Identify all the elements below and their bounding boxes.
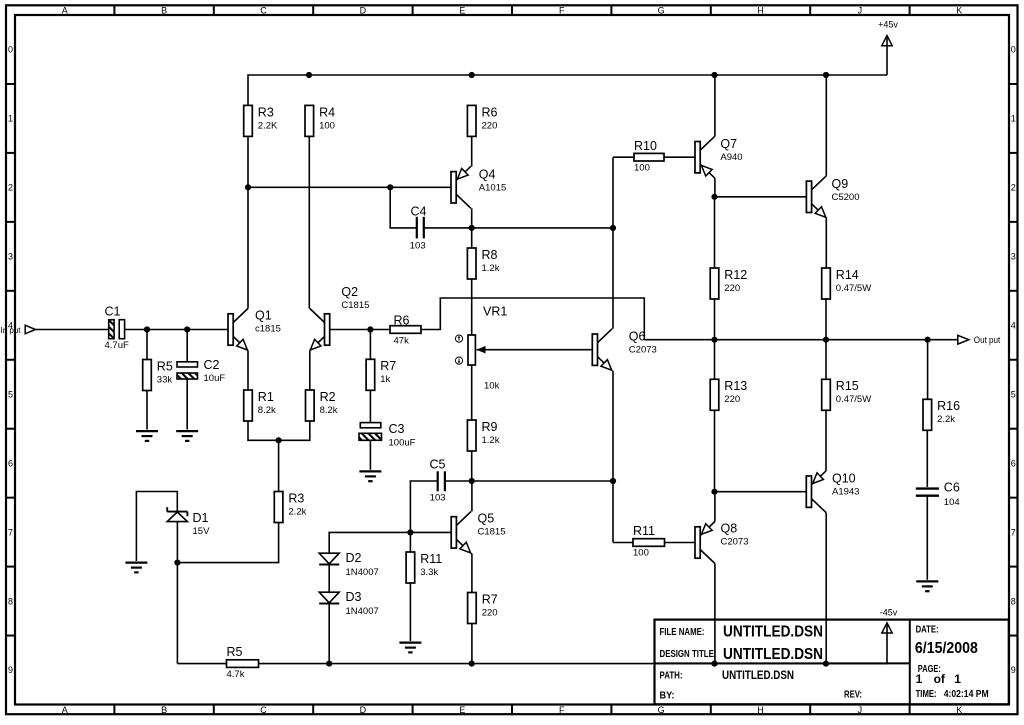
resistor R5b labels — [227, 645, 245, 680]
ground under C6 — [916, 581, 938, 591]
wire R1/R2 bottoms joined — [248, 421, 310, 440]
transistor Q1 labels — [255, 308, 281, 334]
svg-text:3: 3 — [8, 252, 13, 262]
svg-text:Out put: Out put — [974, 335, 1001, 345]
svg-text:D: D — [360, 705, 367, 715]
input port — [1, 325, 36, 335]
svg-text:C1815: C1815 — [341, 300, 369, 311]
svg-text:R11: R11 — [420, 552, 442, 566]
node dot Q7 emitter / Q9 base / R12 — [711, 194, 717, 200]
wire Q5 emitter to R7 — [471, 553, 473, 592]
resistor R8 body — [467, 248, 476, 279]
transistor Q7 — [695, 136, 715, 178]
resistor R9 body — [467, 420, 476, 451]
svg-text:B: B — [161, 705, 167, 715]
svg-text:8: 8 — [1011, 596, 1016, 606]
wire node to R8 — [471, 228, 473, 248]
svg-text:G: G — [658, 705, 665, 715]
transistor Q4 labels — [479, 167, 506, 193]
svg-text:0.47/5W: 0.47/5W — [836, 283, 871, 294]
svg-text:D3: D3 — [346, 590, 362, 604]
resistor R10 labels — [634, 139, 657, 174]
wire output rail to R16 — [927, 340, 929, 400]
svg-text:G: G — [658, 5, 665, 15]
svg-text:0: 0 — [8, 45, 13, 55]
svg-text:R14: R14 — [836, 268, 859, 282]
svg-text:1.2k: 1.2k — [482, 263, 500, 274]
capacitor C3 body — [359, 423, 382, 441]
resistor R4 body — [305, 105, 314, 136]
resistor R16 body — [923, 399, 932, 430]
svg-text:K: K — [956, 705, 962, 715]
wire R10 left to Q6 collector line — [613, 156, 634, 158]
svg-text:1N4007: 1N4007 — [346, 567, 379, 578]
svg-text:R2: R2 — [320, 390, 336, 404]
svg-text:A: A — [62, 5, 68, 15]
node dot Q8 top / Q10 base — [711, 489, 717, 495]
wire C5 left to Q5 base — [410, 481, 437, 532]
svg-text:R6: R6 — [482, 105, 498, 119]
node dot C4 branch — [387, 184, 393, 190]
svg-text:F: F — [559, 5, 565, 15]
resistor R5 labels — [157, 359, 173, 385]
junction dots on bottom rail — [326, 661, 829, 667]
wire Q2 base node to R6 — [370, 329, 390, 331]
wire Q5 base segment — [410, 531, 451, 533]
transistor Q6 — [592, 329, 612, 371]
svg-text:R7: R7 — [380, 359, 396, 373]
svg-text:BY:: BY: — [660, 691, 675, 702]
wire node to Q6 emitter — [472, 480, 613, 482]
resistor R3b body — [274, 492, 283, 523]
wire R3 to D1 node — [177, 523, 278, 563]
resistor R11b body — [633, 539, 665, 547]
svg-text:Q9: Q9 — [832, 177, 849, 191]
wire R10 to Q7 base — [664, 156, 695, 158]
svg-text:+45v: +45v — [878, 20, 898, 30]
capacitor C3 labels — [389, 422, 416, 449]
wire D1 node to bottom rail — [176, 563, 178, 664]
title block frame — [655, 620, 1009, 705]
resistor R12 labels — [724, 268, 747, 294]
svg-text:104: 104 — [944, 497, 960, 508]
diode D2 labels — [346, 551, 379, 578]
transistor Q4 — [451, 166, 471, 208]
svg-text:1: 1 — [916, 672, 923, 686]
resistor R3 labels — [258, 105, 278, 131]
wire C5 right to node — [446, 480, 472, 482]
svg-text:R16: R16 — [937, 399, 960, 413]
svg-text:R13: R13 — [724, 379, 747, 393]
transistor Q10 labels — [832, 471, 859, 497]
svg-text:8: 8 — [8, 596, 13, 606]
node dot Q4 collector / C4 / R8 — [469, 225, 475, 231]
svg-text:Q4: Q4 — [479, 167, 496, 181]
ground under C2 — [176, 431, 198, 441]
wire -45v bottom rail — [177, 663, 887, 665]
svg-text:8.2k: 8.2k — [320, 405, 338, 416]
+45v power symbol — [878, 20, 898, 75]
svg-text:220: 220 — [724, 394, 740, 405]
wire node to Q10 base — [715, 491, 807, 493]
resistor R14 labels — [836, 268, 871, 294]
capacitor C5 labels — [430, 457, 446, 503]
wire D1 cathode to ground — [136, 492, 177, 562]
wire Q2 emitter to R2 — [309, 351, 311, 391]
svg-text:8.2k: 8.2k — [258, 405, 276, 416]
svg-text:E: E — [459, 5, 465, 15]
title block by/rev row — [660, 690, 863, 702]
node dot R9/C5/Q5 collector — [469, 478, 475, 484]
svg-text:1: 1 — [8, 114, 13, 124]
svg-text:C1: C1 — [105, 304, 121, 318]
svg-text:REV:: REV: — [844, 690, 862, 701]
svg-text:1: 1 — [1011, 114, 1016, 124]
svg-text:9: 9 — [8, 665, 13, 675]
svg-text:4: 4 — [1011, 321, 1016, 331]
svg-text:R3: R3 — [258, 105, 274, 119]
svg-text:100: 100 — [634, 162, 650, 173]
wire D1 anode down — [176, 522, 178, 563]
wire D3 to bottom rail — [328, 603, 330, 663]
transistor Q9 — [806, 176, 826, 218]
wire D2 to D3 — [328, 564, 330, 592]
svg-text:5: 5 — [8, 389, 13, 399]
node dot R10 branch — [610, 225, 616, 231]
wire R11 to Q8 base — [665, 542, 696, 544]
svg-text:100uF: 100uF — [389, 438, 416, 449]
svg-text:220: 220 — [724, 283, 740, 294]
wire node to R5 — [146, 330, 148, 360]
resistor R5b body — [227, 660, 259, 668]
node dot tail junction — [276, 437, 282, 443]
svg-text:R3: R3 — [288, 491, 304, 505]
svg-text:2.2k: 2.2k — [288, 506, 306, 517]
svg-text:UNTITLED.DSN: UNTITLED.DSN — [723, 646, 823, 663]
svg-text:K: K — [956, 5, 962, 15]
title block page — [916, 664, 962, 686]
svg-text:R9: R9 — [482, 420, 498, 434]
wire node to R11 — [409, 532, 411, 552]
svg-text:Q10: Q10 — [832, 471, 856, 485]
wire R11 to ground — [409, 583, 411, 641]
wire output rail to R13 — [714, 340, 716, 380]
wire output rail — [644, 339, 958, 341]
wire Q1 collector up — [247, 187, 249, 308]
svg-text:103: 103 — [410, 241, 426, 252]
svg-text:C5: C5 — [430, 457, 446, 471]
diode D1 labels — [193, 511, 211, 537]
svg-text:9: 9 — [1011, 665, 1016, 675]
transistor Q5 labels — [478, 511, 506, 537]
wire Q4 collector down — [471, 208, 473, 228]
svg-text:2.2K: 2.2K — [258, 120, 278, 131]
svg-text:C2073: C2073 — [721, 536, 749, 547]
junction dots on top rail — [306, 72, 829, 78]
svg-text:J: J — [858, 705, 863, 715]
resistor R6b body — [467, 105, 476, 136]
wire Q8 top to node — [714, 492, 716, 522]
wire C3 to ground — [369, 440, 371, 470]
transistor Q6 labels — [629, 329, 657, 355]
svg-text:F: F — [559, 705, 565, 715]
wire R7 to C3 — [369, 390, 371, 422]
potentiometer VR1 labels — [483, 304, 507, 391]
svg-text:5: 5 — [1011, 389, 1016, 399]
wire Q1 emitter to R1 — [247, 351, 249, 391]
title block date — [915, 624, 978, 657]
wire R16 to C6 — [926, 430, 928, 487]
svg-text:47k: 47k — [394, 335, 410, 346]
svg-text:R5: R5 — [227, 645, 243, 659]
capacitor C6 body — [916, 489, 939, 496]
svg-text:15V: 15V — [193, 526, 211, 537]
svg-text:Q5: Q5 — [478, 511, 495, 525]
wire VR1 wiper to Q6 base — [477, 349, 593, 351]
svg-text:1: 1 — [954, 672, 961, 686]
svg-text:2.2k: 2.2k — [937, 414, 955, 425]
border column tick marks — [114, 5, 909, 714]
svg-text:R5: R5 — [157, 359, 173, 373]
svg-text:A1943: A1943 — [832, 486, 859, 497]
svg-text:Q2: Q2 — [341, 285, 358, 299]
svg-text:H: H — [757, 5, 764, 15]
node dot Q5 base / R11 / D2 — [407, 529, 413, 535]
svg-text:103: 103 — [430, 492, 446, 503]
svg-text:C4: C4 — [411, 204, 427, 218]
resistor R3b labels — [288, 491, 306, 517]
wire C6 to ground — [926, 496, 928, 580]
resistor R1 body — [244, 390, 253, 421]
wire Q7 collector to +45 rail — [714, 75, 716, 136]
svg-text:D: D — [360, 5, 367, 15]
resistor R13 labels — [724, 379, 747, 405]
svg-text:D2: D2 — [346, 551, 362, 565]
svg-text:6/15/2008: 6/15/2008 — [915, 640, 978, 657]
wire input to C1 — [35, 329, 108, 331]
svg-text:4.7k: 4.7k — [227, 669, 245, 680]
node dot Q6 emitter / C5 node — [610, 478, 616, 484]
node dot at C2 top — [184, 326, 190, 332]
svg-text:R4: R4 — [319, 105, 335, 119]
svg-text:Q1: Q1 — [255, 308, 272, 322]
svg-text:TIME:: TIME: — [916, 689, 937, 700]
svg-text:1N4007: 1N4007 — [346, 606, 379, 617]
capacitor C4 body — [417, 217, 424, 239]
transistor Q5 — [451, 511, 471, 553]
transistor Q7 labels — [720, 137, 742, 163]
resistor R6a body — [390, 326, 421, 334]
node dot R3/Q1/Q4 base — [245, 184, 251, 190]
svg-text:R7: R7 — [482, 592, 498, 606]
svg-text:4:02:14 PM: 4:02:14 PM — [944, 689, 989, 700]
svg-text:C: C — [260, 5, 267, 15]
resistor R9 labels — [482, 420, 500, 446]
svg-text:220: 220 — [482, 120, 498, 131]
svg-text:33k: 33k — [157, 374, 173, 385]
resistor R10 body — [634, 153, 664, 161]
svg-text:R15: R15 — [836, 379, 859, 393]
resistor R11a body — [406, 552, 415, 583]
svg-text:0: 0 — [1011, 45, 1016, 55]
svg-text:6: 6 — [8, 458, 13, 468]
capacitor C5 body — [438, 471, 445, 491]
diode D3 body — [319, 592, 339, 603]
resistor R7a labels — [380, 359, 396, 385]
svg-text:DATE:: DATE: — [916, 624, 939, 635]
wire Q9 emitter to R14 — [825, 218, 827, 268]
svg-text:Q6: Q6 — [629, 329, 646, 343]
transistor Q1 — [228, 309, 248, 351]
resistor R15 body — [822, 379, 831, 410]
wire Q6 emitter down — [612, 371, 614, 543]
svg-text:of: of — [934, 672, 946, 686]
title block path row — [660, 670, 795, 682]
resistor R16 labels — [937, 399, 960, 425]
svg-text:R8: R8 — [482, 248, 498, 262]
capacitor C2 body — [177, 362, 198, 379]
resistor R11b labels — [633, 524, 655, 559]
svg-text:Q8: Q8 — [721, 521, 738, 535]
ground under R11 — [399, 643, 421, 653]
svg-text:1.2k: 1.2k — [482, 435, 500, 446]
wire Q8 bottom to rail — [714, 564, 716, 664]
wire R7 to bottom rail — [471, 624, 473, 664]
wire output rail to R15 — [825, 340, 827, 380]
resistor R8 labels — [482, 248, 500, 274]
wire C4 left branch — [390, 187, 416, 228]
wire C4 to node — [424, 227, 471, 229]
wire R14 to output rail — [825, 299, 827, 340]
ground under R5 — [136, 431, 158, 441]
transistor Q8 — [695, 522, 715, 564]
svg-text:6: 6 — [1011, 458, 1016, 468]
svg-text:C: C — [260, 705, 267, 715]
ground left of D1 — [125, 563, 147, 573]
wire R12 to output rail — [714, 299, 716, 340]
wire node to Q9 base — [715, 196, 807, 198]
resistor R11a labels — [420, 552, 442, 578]
svg-text:Q7: Q7 — [720, 137, 737, 151]
wire node to R10 branch — [472, 227, 613, 229]
resistor R14 body — [822, 268, 831, 299]
svg-text:10k: 10k — [484, 380, 500, 391]
title block file name row — [660, 624, 824, 641]
svg-text:In put: In put — [1, 325, 22, 335]
title block design title row — [660, 646, 824, 663]
svg-text:D1: D1 — [193, 511, 209, 525]
resistor R5 body — [143, 360, 152, 391]
resistor R7b labels — [482, 592, 498, 618]
wire node to R12 — [714, 197, 716, 268]
capacitor C1 body — [109, 320, 125, 339]
-45v power symbol — [880, 608, 898, 664]
svg-text:UNTITLED.DSN: UNTITLED.DSN — [723, 624, 823, 641]
wire tail node to R3 — [278, 440, 280, 491]
svg-text:C2: C2 — [204, 358, 220, 372]
transistor Q10 — [806, 471, 826, 513]
svg-text:DESIGN TITLE:: DESIGN TITLE: — [660, 649, 717, 660]
svg-text:-45v: -45v — [880, 608, 898, 618]
wire C2 to ground — [186, 379, 188, 430]
svg-text:VR1: VR1 — [483, 304, 507, 318]
resistor R1 labels — [258, 390, 276, 416]
svg-text:1k: 1k — [380, 374, 390, 385]
wire Q9 collector to +45 rail — [825, 75, 827, 176]
resistor R7a body — [366, 359, 375, 390]
resistor R3 body — [244, 105, 253, 136]
svg-text:100: 100 — [319, 120, 335, 131]
resistor R13 body — [710, 379, 719, 410]
transistor Q2 labels — [341, 285, 369, 311]
wire Q5 base node to D2 — [329, 532, 410, 553]
svg-text:C5200: C5200 — [832, 192, 860, 203]
resistor R6a labels — [394, 313, 410, 346]
svg-text:3.3k: 3.3k — [420, 567, 438, 578]
svg-text:c1815: c1815 — [255, 323, 281, 334]
wire C1 to Q1 base — [125, 329, 228, 331]
svg-text:A: A — [62, 705, 68, 715]
wire R6 to Q4 emitter — [471, 136, 473, 166]
wire Q2 collector to R4 — [308, 136, 310, 308]
transistor Q8 labels — [721, 521, 749, 547]
wire R3 to node — [247, 136, 249, 187]
wire Q7 emitter to node — [714, 178, 716, 197]
svg-text:A1015: A1015 — [479, 182, 506, 193]
wire Q6 collector up to R10 branch — [612, 157, 614, 329]
diode D2 body — [319, 553, 339, 564]
diode D1 body — [167, 507, 187, 521]
svg-text:7: 7 — [1011, 527, 1016, 537]
resistor R2 labels — [320, 390, 338, 416]
svg-text:2: 2 — [8, 183, 13, 193]
svg-text:PATH:: PATH: — [660, 671, 683, 682]
border row tick marks — [6, 84, 1018, 636]
svg-text:220: 220 — [482, 607, 498, 618]
wire R9 to node — [471, 451, 473, 481]
svg-text:100: 100 — [633, 548, 649, 559]
svg-text:0.47/5W: 0.47/5W — [836, 394, 871, 405]
wire Q1 collector node to Q4 base — [248, 186, 451, 188]
capacitor C4 labels — [410, 204, 427, 251]
wire Q5 collector to node — [471, 481, 473, 511]
svg-text:E: E — [459, 705, 465, 715]
ground under C3 — [359, 471, 381, 481]
potentiometer VR1 body — [468, 335, 486, 365]
svg-text:H: H — [757, 705, 764, 715]
svg-text:A940: A940 — [720, 152, 742, 163]
capacitor C1 labels — [105, 304, 129, 351]
transistor Q2 — [310, 309, 330, 351]
wire Q6 emitter line to R11 — [613, 542, 633, 544]
svg-text:4.7uF: 4.7uF — [105, 340, 129, 351]
svg-text:C6: C6 — [944, 481, 960, 495]
svg-text:UNTITLED.DSN: UNTITLED.DSN — [722, 670, 794, 682]
wire R6 feedback to output rail — [421, 298, 644, 340]
svg-text:C1815: C1815 — [478, 526, 506, 537]
capacitor C2 labels — [204, 358, 226, 384]
potentiometer VR1 cw/ccw marks — [455, 335, 462, 364]
svg-text:2: 2 — [1011, 183, 1016, 193]
resistor R4 labels — [319, 105, 335, 131]
resistor R7b body — [468, 593, 477, 624]
wire R15 to Q10 collector — [825, 410, 827, 471]
svg-text:C3: C3 — [389, 422, 405, 436]
svg-text:10uF: 10uF — [204, 373, 226, 384]
node dot at R5 top — [144, 326, 150, 332]
svg-text:FILE NAME:: FILE NAME: — [660, 627, 705, 638]
resistor R15 labels — [836, 379, 871, 405]
